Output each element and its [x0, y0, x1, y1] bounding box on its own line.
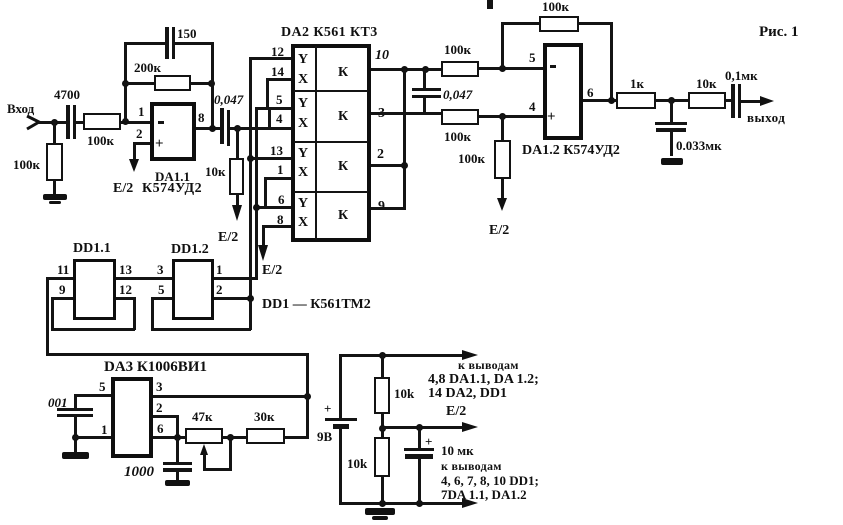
- ref DA1.1: [155, 170, 190, 183]
- DA2 row divider 1: [294, 90, 368, 92]
- resistor R 100к (to pin4): [441, 109, 479, 125]
- wire output bus vertical (10-2-9): [403, 69, 406, 209]
- pin 2 label: [156, 401, 163, 414]
- note 14 DA2, DD1: [428, 387, 507, 401]
- wire pin5 down to cap: [74, 394, 77, 409]
- resistor R 30к: [246, 428, 285, 444]
- wire pin5: [151, 297, 172, 300]
- wire signal to DA2 pin4: [237, 127, 291, 130]
- wire node down to 10к: [236, 127, 239, 158]
- wire pin1: [264, 177, 291, 180]
- wire pin2: [371, 164, 406, 167]
- wire bias vertical to 100к: [501, 115, 504, 141]
- pin 5 label: [276, 93, 283, 106]
- net Е/2 label: [489, 224, 509, 238]
- battery plus sign: [324, 402, 331, 415]
- ground (input): [43, 194, 67, 200]
- wire 30к to vertical: [285, 436, 309, 439]
- wire cap to ground: [670, 132, 673, 156]
- wire pin14: [266, 78, 291, 81]
- pin 10 label: [375, 49, 389, 63]
- pin 9 label: [59, 283, 66, 296]
- wire pin9: [51, 297, 73, 300]
- DA2 row divider 2: [294, 141, 368, 143]
- DA2 row divider 3: [294, 191, 368, 193]
- ground (DA3): [62, 452, 89, 459]
- net Е/2 label: [113, 182, 133, 196]
- wire pin13 to pin3: [116, 277, 172, 280]
- resistor R 10к (output): [688, 92, 726, 109]
- wire pin6: [153, 436, 185, 439]
- op-amp plus mark: [155, 137, 164, 152]
- DA2 sw4 X label: [298, 216, 308, 230]
- value 4700: [54, 88, 80, 101]
- wire pin9: [371, 207, 406, 210]
- ref DD1.2: [171, 243, 209, 257]
- DA2 sw4 К label: [338, 209, 348, 223]
- note 4, 6, 7, 8, 10 DD1;: [441, 474, 539, 487]
- wire 200к left lead: [124, 82, 155, 85]
- wire pin3: [371, 112, 442, 115]
- capacitor C 0.033мк plates: [655, 122, 687, 125]
- wire wiper loop bottom: [203, 468, 232, 471]
- wire 100к to pin5: [479, 67, 543, 70]
- pin 13 label: [119, 263, 132, 276]
- wire pin8 bias vertical: [262, 225, 265, 247]
- value 9В: [317, 430, 332, 443]
- capacitor stub bottom: [423, 98, 426, 114]
- wire feedback top right: [579, 22, 613, 25]
- wire C1 to R2: [76, 121, 84, 124]
- wire input to C1: [38, 121, 67, 124]
- wire Е/2 horizontal: [381, 426, 465, 429]
- caption Рис. 1: [759, 25, 798, 40]
- value 1к: [630, 77, 644, 90]
- artifact mark top: [487, 0, 493, 9]
- wire DD1.1 loop left vertical: [51, 297, 54, 330]
- op-amp plus mark: [547, 110, 556, 125]
- wire rail to 10k top: [381, 354, 384, 377]
- wire pin12: [249, 57, 291, 60]
- capacitor C 001 plates: [57, 408, 93, 411]
- pin 4 label: [529, 100, 536, 113]
- capacitor C 1000 plates: [163, 462, 192, 465]
- wire cap to node: [230, 127, 240, 130]
- net Е/2 label: [446, 405, 466, 419]
- capacitor C 10мк top plate: [404, 448, 434, 451]
- node 200к right junction: [208, 80, 215, 87]
- wire pin1: [74, 436, 111, 439]
- output arrow: [760, 96, 774, 106]
- wire pin5: [255, 107, 291, 110]
- wire pin2 (to bus A): [214, 297, 251, 300]
- wire E/2 node to 10k bottom: [381, 428, 384, 437]
- resistor R 10к (bias): [229, 158, 244, 195]
- pin 11 label: [57, 263, 69, 276]
- resistor R 100к (feedback DA1.2): [539, 16, 579, 32]
- op-amp U DA1.1: [150, 102, 196, 161]
- wire pin2: [153, 415, 179, 418]
- wire cap to output arrow: [741, 100, 761, 103]
- DA2 sw3 Y label: [298, 147, 308, 161]
- pin 2 label: [216, 283, 223, 296]
- node 200к left junction: [122, 80, 129, 87]
- DA2 sw3 К label: [338, 160, 348, 174]
- flip-flop DD1.1 body: [73, 259, 116, 320]
- node rail/10мк junction: [416, 500, 423, 507]
- wire pin2: [133, 142, 150, 145]
- value 10 мк: [441, 444, 474, 457]
- value 100к: [87, 134, 114, 147]
- resistor R 1к: [616, 92, 656, 109]
- resistor R 100к (to pin5): [441, 61, 479, 77]
- node Е/2 divider junction: [379, 425, 386, 432]
- wire pin3 output: [153, 395, 309, 398]
- wire feedback right vertical: [211, 42, 214, 129]
- wire DD1.2 loop left vertical: [151, 297, 154, 330]
- value 0,047: [214, 93, 243, 106]
- pin 8 label: [198, 111, 205, 124]
- capacitor C 150: [165, 27, 169, 59]
- wire node down to 0.033мк: [670, 99, 673, 123]
- wire +9V rail top: [339, 354, 465, 357]
- wire control bus B vertical: [255, 107, 258, 279]
- pin 3 label: [378, 107, 385, 121]
- value 10k: [394, 387, 414, 400]
- value 1000: [124, 465, 154, 480]
- wire pin10: [371, 68, 442, 71]
- capacitor plus sign: [425, 435, 432, 448]
- node RC junction: [668, 97, 675, 104]
- wire pin2 bias vertical: [133, 142, 136, 160]
- wire pin2 down to pin6 line: [176, 415, 179, 438]
- value 100к: [542, 0, 569, 13]
- capacitor C 0,047 (between lines) stub top: [423, 69, 426, 89]
- note 4,8 DA1.1, DA 1.2;: [428, 373, 539, 387]
- node wiper/line junction: [227, 434, 234, 441]
- node Вход label: [7, 102, 34, 115]
- ref DA2 К561КТ3 title: [281, 26, 378, 40]
- node pin1 junction: [72, 434, 79, 441]
- node pin2-6/cap junction: [174, 434, 181, 441]
- switch IC DA2 body: [291, 44, 371, 242]
- net Е/2 label: [218, 231, 238, 245]
- wire 10к to cap: [726, 99, 731, 102]
- node rail/10k bottom junction: [379, 500, 386, 507]
- ground (0.033мк): [661, 158, 683, 165]
- wire 10k to 0V rail: [381, 477, 384, 503]
- value 001: [48, 396, 68, 409]
- wire cap down to ground: [74, 417, 77, 453]
- value 100к: [444, 43, 471, 56]
- node pin10/bus junction: [401, 66, 408, 73]
- potentiometer R 47к: [185, 428, 223, 444]
- node Е/2 / 10мк junction: [416, 424, 423, 431]
- DA2 inner column divider: [315, 46, 317, 240]
- resistor R 100к (series input): [83, 113, 121, 130]
- node pin6/busB junction: [253, 204, 260, 211]
- battery short plate: [333, 424, 349, 429]
- ground (battery minus): [365, 508, 395, 515]
- node feedback/pin5 junction: [499, 65, 506, 72]
- wire 100к to pin4: [479, 115, 543, 118]
- resistor R 100к (bias DA1.2): [494, 140, 511, 179]
- DA2 sw1 К label: [338, 66, 348, 80]
- wire R1 to ground: [53, 181, 56, 195]
- op-amp minus mark: [158, 121, 164, 124]
- wire oscillator right vertical: [306, 353, 309, 438]
- wire 1к to node: [656, 99, 688, 102]
- node pin4/bias junction: [499, 113, 506, 120]
- node pin10/cap junction: [422, 66, 429, 73]
- pin 5 label: [529, 51, 536, 64]
- wire feedback top (to C 150): [124, 42, 166, 45]
- node rail/10k junction: [379, 352, 386, 359]
- capacitor C 10мк bottom plate: [405, 454, 433, 459]
- wire control bus A vertical: [249, 57, 252, 330]
- pin 9 label: [378, 200, 385, 214]
- capacitor C 10мк negative lead: [418, 458, 421, 503]
- wire DD1.1 loop bottom: [51, 328, 135, 331]
- op-amp U DA1.2: [543, 43, 583, 140]
- wire 0V rail bottom: [339, 502, 465, 505]
- pin 1 label: [101, 423, 108, 436]
- wire op-amp output: [196, 127, 221, 130]
- timer DA3 body: [111, 377, 153, 458]
- wire pin6: [255, 206, 291, 209]
- wire 100к to arrow: [501, 179, 504, 199]
- pin 1 label: [216, 263, 223, 276]
- DA2 sw1 X label: [298, 73, 308, 87]
- pin 3 label: [157, 263, 164, 276]
- note к выводам (bottom): [441, 460, 502, 472]
- ref DA1.2 К574УД2: [522, 144, 620, 158]
- wire C150 to right vertical: [175, 42, 214, 45]
- note к выводам (top): [458, 359, 519, 371]
- flip-flop DD1.2 body: [172, 259, 214, 320]
- note 7DA 1.1, DA1.2: [441, 488, 527, 501]
- arrow to Е/2 (10к): [236, 195, 239, 206]
- pin 3 label: [156, 380, 163, 393]
- arrow to Е/2 (pin2): [129, 159, 139, 172]
- node pin3/vertical junction: [304, 393, 311, 400]
- DA2 sw2 X label: [298, 117, 308, 131]
- capacitor C 10мк positive lead: [418, 426, 421, 449]
- resistor R 200к feedback: [154, 75, 191, 91]
- node выход label: [747, 111, 785, 124]
- node 10к junction: [234, 125, 241, 132]
- pin 12 label: [119, 283, 132, 296]
- wire DD1.1 loop right vertical: [133, 297, 136, 330]
- wire 200к right lead: [191, 82, 214, 85]
- value 100к: [13, 158, 40, 171]
- pin 2 label: [377, 148, 384, 162]
- wire pin1 (to bus B): [214, 277, 258, 280]
- ref DA3 К1006ВИ1 title: [104, 360, 207, 375]
- wire cap 1000 to ground: [176, 471, 179, 481]
- resistor R 10k (lower divider): [374, 437, 390, 477]
- wire feedback right vertical: [610, 22, 613, 101]
- wire bracket 5-4: [268, 107, 271, 129]
- node pin13/busA junction: [247, 155, 254, 162]
- capacitor C 0,1мк: [731, 84, 735, 118]
- arrow Е/2: [462, 422, 478, 432]
- wire pin11: [46, 277, 73, 280]
- battery GB 9В positive lead: [339, 354, 342, 419]
- pin 2 label: [136, 127, 143, 140]
- DA2 sw1 Y label: [298, 53, 308, 67]
- pin 6 label: [587, 86, 594, 99]
- node feedback/pin1 junction: [122, 118, 129, 125]
- pin 1 label: [138, 105, 145, 118]
- pin 8 label: [277, 213, 284, 226]
- value 0,1мк: [725, 69, 758, 82]
- wire pin8: [262, 225, 291, 228]
- net Е/2 label: [262, 264, 282, 278]
- pot wiper arrow: [200, 444, 208, 455]
- pin 14 label: [271, 65, 284, 78]
- value 100к: [458, 152, 485, 165]
- wire 47к to 30к: [223, 436, 246, 439]
- wire output pin6: [583, 99, 616, 102]
- value 0,047: [443, 88, 472, 101]
- DA2 sw2 Y label: [298, 97, 308, 111]
- pin 6 label: [157, 422, 164, 435]
- wire bracket 1-6: [264, 177, 267, 208]
- part DD1 — К561ТМ2: [262, 298, 371, 312]
- value 150: [177, 27, 197, 40]
- battery long plate: [325, 418, 357, 421]
- pin 1 label: [277, 163, 284, 176]
- wire junction down to R1: [53, 121, 56, 144]
- value 200к: [134, 61, 161, 74]
- value 10k: [347, 457, 367, 470]
- node pin2/bus junction: [401, 162, 408, 169]
- pin 13 label: [270, 144, 283, 157]
- node pin2/busA junction: [247, 295, 254, 302]
- wire clock line horizontal: [46, 353, 309, 356]
- pin 6 label: [278, 193, 285, 206]
- pin 5 label: [99, 380, 106, 393]
- arrow to Е/2 (pin8): [258, 245, 268, 261]
- resistor R 10k (upper divider): [374, 377, 390, 414]
- DA2 sw4 Y label: [298, 197, 308, 211]
- DA2 sw2 К label: [338, 110, 348, 124]
- node input junction: [51, 119, 58, 126]
- wire DD1.2 loop bottom: [151, 328, 251, 331]
- DA2 sw3 X label: [298, 166, 308, 180]
- capacitor C 0,047 plates: [412, 88, 441, 91]
- pin 4 label: [276, 112, 283, 125]
- arrow 0V rail: [462, 498, 478, 508]
- wire pin5: [74, 394, 111, 397]
- wire feedback left vertical: [501, 22, 504, 68]
- wire bracket 14-5: [266, 78, 269, 109]
- ground (1000): [165, 480, 190, 486]
- wire junction down to cap 1000: [176, 438, 179, 463]
- pin 12 label: [271, 45, 284, 58]
- arrow +9V rail: [462, 350, 478, 360]
- wire 10k to E/2 node: [381, 414, 384, 429]
- wire R2 to op-amp pin1: [121, 121, 151, 124]
- node output/feedback junction: [209, 125, 216, 132]
- value 0.033мк: [676, 139, 722, 152]
- arrow to Е/2 (pin4 bias): [497, 198, 507, 211]
- part К574УД2: [142, 182, 202, 196]
- wire feedback left vertical: [124, 43, 127, 121]
- capacitor C 0,047 (coupling): [220, 108, 224, 144]
- value 47к: [192, 410, 213, 423]
- wire wiper loop vertical: [229, 436, 232, 470]
- input terminal arrow: [25, 113, 43, 131]
- battery negative lead: [339, 429, 342, 504]
- value 30к: [254, 410, 275, 423]
- value 100к: [444, 130, 471, 143]
- ref DD1.1: [73, 242, 111, 256]
- node feedback/output junction: [608, 97, 615, 104]
- wire pin13: [248, 157, 291, 160]
- capacitor C 4700: [66, 105, 70, 139]
- value 10к: [696, 77, 717, 90]
- wire feedback top left: [501, 22, 540, 25]
- wire pin12: [116, 297, 135, 300]
- pin 5 label: [158, 283, 165, 296]
- op-amp minus mark: [550, 65, 556, 68]
- resistor R 100к (input shunt): [46, 143, 63, 181]
- wire pin11 vertical down: [46, 277, 49, 355]
- pot wiper stem: [203, 452, 206, 470]
- value 10к: [205, 165, 226, 178]
